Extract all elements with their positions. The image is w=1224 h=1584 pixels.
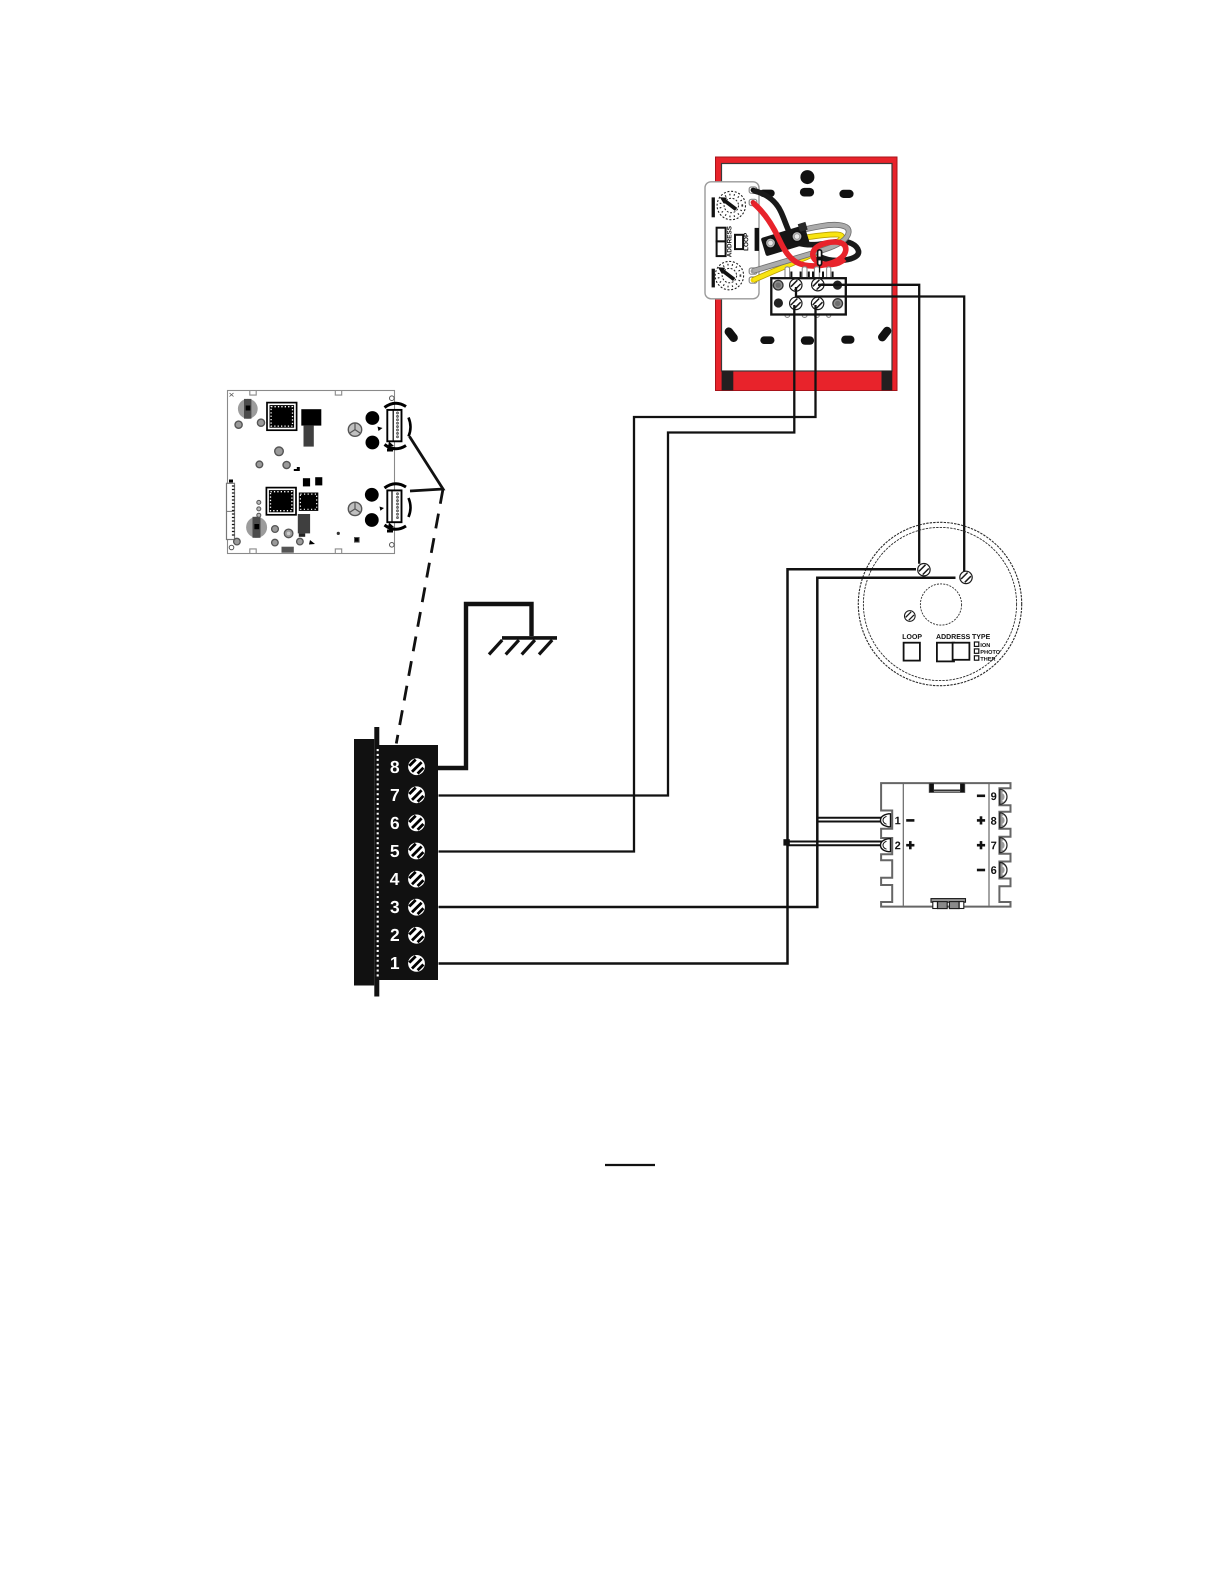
wire: vertical A block1-module2-detectorL bbox=[439, 569, 917, 963]
yellow wire from card pad to terminal bbox=[753, 234, 842, 280]
IC U3 bbox=[266, 488, 296, 515]
IC U1 bbox=[267, 403, 297, 431]
wire pair into module terminal 2 bbox=[786, 842, 884, 846]
module terminal numbers bbox=[895, 792, 996, 874]
card black bars bbox=[712, 197, 715, 217]
wire: pull station to detector right screw bbox=[796, 287, 964, 572]
callout dashed line to block bbox=[396, 489, 443, 744]
rotary address dial upper bbox=[717, 191, 745, 219]
main terminal block bbox=[354, 727, 438, 997]
black wire from card pad to terminal bbox=[753, 191, 859, 261]
trimmer circle lower bbox=[348, 502, 361, 515]
left edge connector bbox=[227, 480, 235, 540]
callout solid lines from PCB connectors bbox=[410, 437, 444, 492]
wire pair into module terminal 1 bbox=[817, 818, 884, 822]
module side screws 9 8 7 6 bbox=[1000, 789, 1007, 877]
wire: vertical B block3-module1-detectorR bbox=[439, 578, 956, 907]
small vias column bbox=[257, 500, 261, 504]
pull station bottom black end caps bbox=[722, 371, 734, 391]
black capacitors top bbox=[366, 411, 380, 425]
regulator heatsink gray bbox=[304, 426, 314, 447]
red wire from card pad to terminal (loops) bbox=[753, 203, 846, 266]
fire alarm pull station red box bbox=[716, 157, 898, 391]
card wire pads bbox=[749, 187, 757, 193]
module polarity signs bbox=[906, 795, 985, 872]
control module bbox=[881, 783, 1010, 909]
reference line bottom bbox=[605, 1164, 655, 1166]
small squares mid bbox=[303, 478, 310, 486]
earth ground symbol bbox=[489, 638, 557, 655]
wire: pull station to block terminal 5 bbox=[439, 305, 816, 852]
connector J1 bbox=[385, 403, 411, 451]
address card (white) bbox=[705, 182, 759, 299]
wire: block terminal 8 to ground bbox=[438, 604, 532, 768]
vias top bbox=[235, 421, 242, 428]
detector base circle bbox=[858, 522, 1021, 685]
wire cone terminal 1 bbox=[881, 814, 891, 827]
electrolytic capacitor top-left bbox=[238, 399, 258, 419]
wire: pull station to detector left screw bbox=[818, 285, 919, 564]
corner holes bbox=[390, 396, 395, 401]
detector labels bbox=[903, 634, 1000, 661]
lower small parts bbox=[282, 547, 294, 553]
PCB assembly bbox=[227, 391, 411, 554]
terminal screws bbox=[773, 280, 783, 290]
cable clamp bbox=[760, 222, 812, 256]
module top tab bbox=[930, 784, 965, 793]
detector screws bbox=[918, 564, 930, 576]
electrolytic capacitor lower-left bbox=[246, 517, 267, 538]
IC U4 bbox=[299, 493, 319, 511]
trimmer circle top bbox=[348, 423, 361, 436]
wire end pin bbox=[817, 250, 823, 273]
junction nub bbox=[783, 839, 789, 845]
pull station terminal block bbox=[771, 278, 846, 314]
block numbers and screws bbox=[390, 761, 399, 969]
IC U2 bbox=[301, 409, 321, 425]
heatsink gray lower bbox=[298, 514, 310, 533]
rotary address dial lower bbox=[715, 261, 743, 289]
terminal strips bbox=[785, 267, 831, 318]
gray wire from card pad to terminal bbox=[753, 225, 849, 271]
connector J2 bbox=[385, 484, 411, 533]
module bottom bracket bbox=[931, 899, 966, 909]
comb marks bbox=[790, 272, 833, 278]
wire cone terminal 2 bbox=[881, 839, 891, 852]
black capacitors lower bbox=[365, 488, 379, 502]
ADDRESS switch squares bbox=[717, 228, 726, 242]
wire: pull station to block terminal 7 bbox=[439, 305, 795, 796]
LOOP switch square bbox=[735, 235, 743, 249]
backplate mounting holes/slots bbox=[723, 170, 893, 345]
